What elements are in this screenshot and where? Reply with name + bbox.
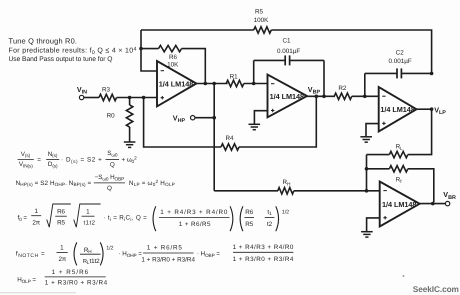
node junction VHP terminal: [212, 116, 216, 120]
formula line 4: fnotch, HOHP, HOBP: [16, 242, 294, 265]
svg-text:C1: C1: [282, 37, 291, 44]
wire VHP node to RH: [214, 190, 278, 192]
wire U2 noninverting input to ground: [254, 111, 267, 124]
svg-text:1/2: 1/2: [282, 210, 289, 216]
wire R2 to U3 inverting input: [352, 95, 379, 97]
svg-text:t2: t2: [267, 221, 273, 228]
wire U3 noninverting input to ground: [366, 124, 379, 137]
svg-text:R5: R5: [255, 9, 264, 16]
svg-text:t1t2: t1t2: [83, 219, 95, 226]
scan speck: [402, 275, 404, 277]
node junction C1 right: [322, 95, 326, 99]
resistor R3: [99, 87, 117, 101]
svg-text:2π: 2π: [32, 219, 40, 226]
svg-text:0.001µF: 0.001µF: [277, 48, 300, 55]
node junction C2 to VLP vertical: [430, 72, 434, 76]
formula line 5: HOLP: [17, 269, 107, 286]
svg-text:1/2: 1/2: [106, 246, 113, 252]
svg-text:1: 1: [34, 208, 38, 215]
svg-text:C2: C2: [396, 50, 405, 57]
resistor R5: [254, 9, 272, 34]
svg-text:Use Band Pass output to tune f: Use Band Pass output to tune for Q: [9, 56, 113, 63]
ground U4: [361, 232, 373, 237]
svg-text:1/4 LM148: 1/4 LM148: [270, 92, 304, 101]
wire R4 to VBP node: [239, 96, 316, 147]
svg-text:1: 1: [86, 208, 90, 215]
node junction U2 inverting input: [252, 82, 256, 86]
svg-text:R3: R3: [102, 87, 111, 94]
svg-text:100K: 100K: [254, 17, 270, 24]
node junction at R0: [128, 96, 132, 100]
svg-text:Q: Q: [107, 185, 112, 192]
wire U2 output (VBP) to R2: [307, 95, 335, 97]
svg-text:For predictable results: f0 Q: For predictable results: f0 Q ≤ 4 × 104: [9, 46, 137, 56]
svg-text:1 + R5/R6: 1 + R5/R6: [52, 269, 90, 276]
ground R0: [124, 142, 136, 147]
svg-text:0.001µF: 0.001µF: [388, 58, 411, 65]
svg-text:f0 =: f0 =: [18, 215, 28, 222]
capacitor C1: [254, 37, 324, 96]
scan artifact bottom line: [0, 292, 76, 293]
svg-text:=: =: [37, 157, 41, 164]
node junction VBP/R4: [315, 95, 319, 99]
resistor R1: [226, 74, 244, 87]
node junction U4 inverting input: [365, 189, 369, 193]
node junction U3 inverting input: [363, 95, 367, 99]
resistor R2: [334, 85, 352, 100]
svg-text:1/4 LM148: 1/4 LM148: [159, 79, 193, 88]
svg-text:R2: R2: [338, 85, 347, 92]
wire VHP node down to RH: [213, 84, 215, 191]
svg-text:R0: R0: [107, 112, 116, 119]
wire VLP feedback to R5 (top): [141, 29, 254, 31]
wire RH to U4 inverting input: [294, 190, 380, 192]
wire U4 noninverting input to ground: [367, 218, 380, 232]
wire U1 + input node down to R4: [144, 98, 221, 148]
svg-text:1 + R6/R5: 1 + R6/R5: [179, 221, 211, 228]
svg-text:Tune Q through R0.: Tune Q through R0.: [9, 36, 78, 45]
resistor RH: [278, 179, 294, 194]
wire VIN to R3: [84, 97, 99, 99]
node junction VBR: [431, 202, 435, 206]
svg-text:1 + R4/R3 + R4/R0: 1 + R4/R3 + R4/R0: [160, 209, 228, 216]
terminal VBR: [443, 190, 456, 206]
svg-text:1 + R4/R3 + R4/R0: 1 + R4/R3 + R4/R0: [233, 244, 294, 251]
svg-text:R4: R4: [225, 135, 234, 142]
wire U1 inverting input: [141, 30, 157, 71]
wire R1 to U2 inverting input: [244, 83, 268, 85]
wire RL/Rf left vertical to U4 inverting input: [366, 155, 368, 191]
resistor Rf: [367, 166, 434, 202]
op-amp U3: [379, 87, 417, 132]
op-amp U2: [268, 75, 308, 118]
svg-text:R6: R6: [169, 54, 178, 61]
svg-text:1 + R6/R5: 1 + R6/R5: [147, 245, 183, 252]
wire U3 output to VLP node: [417, 108, 432, 110]
formula line 3: f0 and Q: [18, 204, 289, 231]
svg-text:· D(s) = S2 +: · D(s) = S2 +: [61, 157, 102, 164]
wire R5 to right vertical: [271, 30, 431, 73]
node junction at R4 branch: [142, 96, 146, 100]
svg-text:SeekIC.com: SeekIC.com: [413, 284, 459, 294]
ground U3: [360, 137, 372, 142]
svg-text:2π: 2π: [58, 256, 66, 263]
svg-text:1 + R3/R0 + R3/R4: 1 + R3/R0 + R3/R4: [45, 280, 108, 287]
resistor R6: [141, 45, 205, 83]
svg-text:R5: R5: [245, 221, 253, 228]
op-amp U4: [380, 182, 420, 227]
terminal VHP: [173, 114, 214, 125]
node junction R6 branch: [139, 47, 143, 51]
resistor R4: [221, 135, 239, 150]
node junction Rf left: [365, 167, 369, 171]
svg-text:1/4 LM148: 1/4 LM148: [380, 105, 414, 114]
wire U1 output to R1: [196, 83, 227, 85]
formula line 2: numerators: [16, 174, 175, 192]
resistor R0: [107, 98, 133, 142]
wire R3 to U1 noninverting input: [117, 97, 157, 99]
svg-text:R5: R5: [57, 219, 65, 226]
svg-text:RLt1t2: RLt1t2: [83, 258, 100, 265]
svg-text:R6: R6: [57, 208, 65, 215]
op-amp U1: [157, 61, 196, 106]
node junction R6 to output: [204, 82, 208, 86]
svg-text:1/4 LM148: 1/4 LM148: [382, 200, 416, 209]
annotation tuning note: [9, 36, 137, 62]
svg-text:R6: R6: [245, 209, 253, 216]
resistor RL: [367, 144, 408, 158]
node junction VHP branch: [212, 82, 216, 86]
svg-text:Q: Q: [110, 161, 115, 168]
svg-text:1: 1: [60, 244, 64, 251]
terminal VIN: [77, 85, 87, 100]
formula line 1: transfer function: [18, 150, 137, 169]
svg-text:1 + R3/R0 + R3/R4: 1 + R3/R0 + R3/R4: [141, 256, 195, 263]
node junction VLP: [430, 107, 434, 111]
svg-text:R1: R1: [230, 74, 239, 81]
ground U2: [249, 124, 261, 129]
wire U4 output to VBR terminal: [420, 203, 446, 205]
wire VLP down to RL: [408, 109, 432, 154]
capacitor C2: [365, 50, 432, 97]
svg-text:1 + R3/R0 + R3/R4: 1 + R3/R0 + R3/R4: [233, 256, 294, 263]
